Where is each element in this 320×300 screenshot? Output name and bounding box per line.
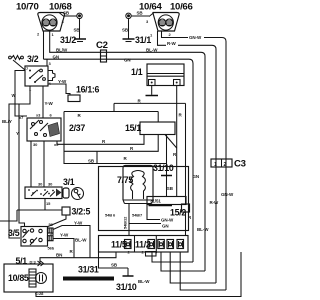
svg-text:BL/Y: BL/Y xyxy=(2,119,12,124)
svg-text:BL/W: BL/W xyxy=(56,47,68,52)
svg-text:1: 1 xyxy=(214,162,217,168)
box 3/2:5 xyxy=(62,207,70,215)
svg-text:R-W: R-W xyxy=(167,41,177,46)
wire R from 1/1 right terminal down xyxy=(176,86,178,197)
svg-text:GN-W: GN-W xyxy=(221,192,234,197)
wire Y-W 3/2 pin4 to 16/1:6 xyxy=(48,84,70,95)
svg-text:54B/7: 54B/7 xyxy=(132,213,143,218)
wire BL/W from left lamp pin1 across xyxy=(50,31,205,271)
svg-text:C3: C3 xyxy=(234,159,246,170)
wire 54B/7 stub GN-W xyxy=(147,204,160,220)
svg-text:2: 2 xyxy=(224,162,227,168)
bulb left A xyxy=(42,15,57,30)
ground 31/1 xyxy=(123,39,135,42)
svg-text:SB: SB xyxy=(74,28,81,33)
headlamp right body xyxy=(149,13,179,32)
wire 15/1 diagonal to R feed xyxy=(165,135,177,149)
maze wire BL-W to lamp3 xyxy=(161,252,205,271)
svg-text:3/2: 3/2 xyxy=(27,54,39,64)
wire 3/1 to 3/2:5 xyxy=(0,199,62,222)
svg-text:31/1: 31/1 xyxy=(135,35,151,45)
switch 3/5 xyxy=(21,227,48,247)
connector below lamp row xyxy=(146,252,157,257)
svg-text:3/1: 3/1 xyxy=(63,177,75,187)
wire R bus to 15/1 second xyxy=(64,135,158,164)
maze wire GN-W to lamp5 xyxy=(180,252,226,290)
wire SB left lamp to ground point xyxy=(64,15,77,17)
bulb right B xyxy=(166,19,173,26)
svg-text:10/85: 10/85 xyxy=(8,273,29,283)
wire 3/2:5 to 3/5 xyxy=(48,215,66,227)
svg-text:GN-W: GN-W xyxy=(161,218,174,223)
svg-text:Y-W: Y-W xyxy=(60,233,69,238)
wire R-W from right lamp pin1 xyxy=(158,31,167,45)
wire R from dimmer x5 to 15/1 xyxy=(57,135,144,145)
lamp 11 L4 xyxy=(167,240,174,249)
svg-text:1/1: 1/1 xyxy=(131,67,143,77)
svg-text:BL-W: BL-W xyxy=(197,227,209,232)
ground chain 31/10 upper xyxy=(161,164,172,197)
svg-text:GN-W: GN-W xyxy=(189,35,202,40)
wire left lamp pin2 down to switch 3/2 xyxy=(43,31,45,59)
ignition switch 3/1 xyxy=(25,187,62,199)
svg-text:SB: SB xyxy=(167,186,174,191)
svg-text:56b: 56b xyxy=(48,246,55,251)
svg-text:31/10: 31/10 xyxy=(153,163,174,173)
ground point circle 31/1 xyxy=(126,13,131,18)
ground box 31/51 xyxy=(147,197,186,206)
svg-text:Y-W: Y-W xyxy=(58,79,67,84)
wire Y-W from 3/5 upper xyxy=(53,226,90,258)
wire 3/2 pin4 down to dimmer xyxy=(42,86,44,118)
lamp 11 L5 xyxy=(177,240,184,249)
wire SB down right xyxy=(128,18,130,38)
wire SB down xyxy=(79,18,81,38)
wire 10/85 bottom loop xyxy=(36,252,241,297)
svg-text:SB: SB xyxy=(63,11,70,16)
maze wire GN to lamp2 xyxy=(152,252,193,262)
wire 54B/6 down with vertical label xyxy=(128,204,130,237)
svg-text:Y: Y xyxy=(16,131,19,136)
plug notch right of 3/2 xyxy=(48,71,55,81)
headlamp left body xyxy=(38,13,65,32)
svg-text:GN: GN xyxy=(53,54,60,59)
svg-text:31/2: 31/2 xyxy=(60,35,76,45)
bus line H105 xyxy=(114,103,186,111)
SB bus left xyxy=(64,112,167,164)
lamp unit 10/85 xyxy=(4,264,53,292)
svg-text:54B 6: 54B 6 xyxy=(105,213,116,218)
svg-text:SB: SB xyxy=(122,28,129,33)
bulb right A xyxy=(158,15,173,30)
svg-text:SB: SB xyxy=(111,263,118,268)
svg-text:GN: GN xyxy=(124,58,131,63)
svg-text:SB: SB xyxy=(88,159,95,164)
svg-text:31/31: 31/31 xyxy=(78,265,99,275)
box 16/1:6 xyxy=(68,95,80,102)
svg-text:54B/12: 54B/12 xyxy=(123,216,128,229)
ground 31/2 xyxy=(74,39,86,42)
svg-text:BL-W: BL-W xyxy=(75,238,87,243)
svg-text:SB: SB xyxy=(137,11,144,16)
wires dimmer bottom to ignition switch 3/1 xyxy=(30,141,32,187)
instrument cluster 15/2 box xyxy=(99,167,189,231)
ground 31/10 lower xyxy=(99,252,134,276)
svg-text:3/5: 3/5 xyxy=(8,228,20,238)
svg-text:BL-W: BL-W xyxy=(146,47,158,52)
relay 1/1 xyxy=(147,64,184,86)
svg-text:Y-W: Y-W xyxy=(74,221,83,226)
lamp row box 11/x xyxy=(99,236,189,253)
svg-text:31/51: 31/51 xyxy=(150,199,161,204)
ground point circle 31/2 xyxy=(77,13,82,18)
wire 3/2 pin1 down and left branches xyxy=(9,86,30,238)
wire GN-W from right lamp pin2 to right edge xyxy=(162,31,189,38)
box 15/1 xyxy=(140,122,175,135)
ignition lock symbol xyxy=(63,188,84,200)
ground under 1/1 xyxy=(146,86,159,96)
svg-text:C2: C2 xyxy=(96,40,108,51)
lamp 11 L3 xyxy=(158,240,165,249)
svg-text:R-W: R-W xyxy=(210,200,220,205)
wire BL-W from 3/5 lower xyxy=(53,239,74,258)
svg-text:16/1:6: 16/1:6 xyxy=(76,85,100,95)
wire Y down xyxy=(19,104,25,227)
svg-text:Y-W: Y-W xyxy=(45,101,54,106)
svg-text:7/75: 7/75 xyxy=(117,175,133,185)
lamp 11 L1 xyxy=(125,240,132,249)
wire GN from switch 3/2 across xyxy=(44,59,194,262)
wire GN stub xyxy=(129,223,161,225)
connector C2 xyxy=(101,50,107,62)
svg-text:GN: GN xyxy=(193,174,200,179)
svg-text:10/66: 10/66 xyxy=(170,2,193,13)
connector box on R feed xyxy=(182,204,193,236)
svg-text:15/1: 15/1 xyxy=(125,123,141,133)
dimmer switch 2/37 xyxy=(27,118,61,141)
switch 3/2 xyxy=(25,66,48,86)
ground bus 31/31 xyxy=(63,265,114,281)
svg-text:3/2:5: 3/2:5 xyxy=(72,207,91,217)
flash contact symbol top-left xyxy=(9,56,25,71)
svg-text:2/37: 2/37 xyxy=(69,123,85,133)
bulb housing 7/75 xyxy=(123,166,153,204)
wire SB right lamp xyxy=(131,15,149,17)
svg-text:31/10: 31/10 xyxy=(116,282,137,292)
connector 5/1 and wire BN xyxy=(16,252,117,266)
svg-text:BL-W: BL-W xyxy=(138,279,150,284)
bulb left B xyxy=(46,19,57,31)
terminal boxes right of 3/5 xyxy=(48,228,55,251)
svg-text:BN: BN xyxy=(56,253,62,258)
wire W from 3/2 pin7 xyxy=(15,71,27,117)
connector C3 xyxy=(211,159,232,168)
maze wire R-W to lamp4 xyxy=(170,252,216,283)
lamp 11 L2 xyxy=(148,240,155,249)
svg-text:GN: GN xyxy=(162,224,169,229)
svg-text:10/70: 10/70 xyxy=(16,2,39,13)
